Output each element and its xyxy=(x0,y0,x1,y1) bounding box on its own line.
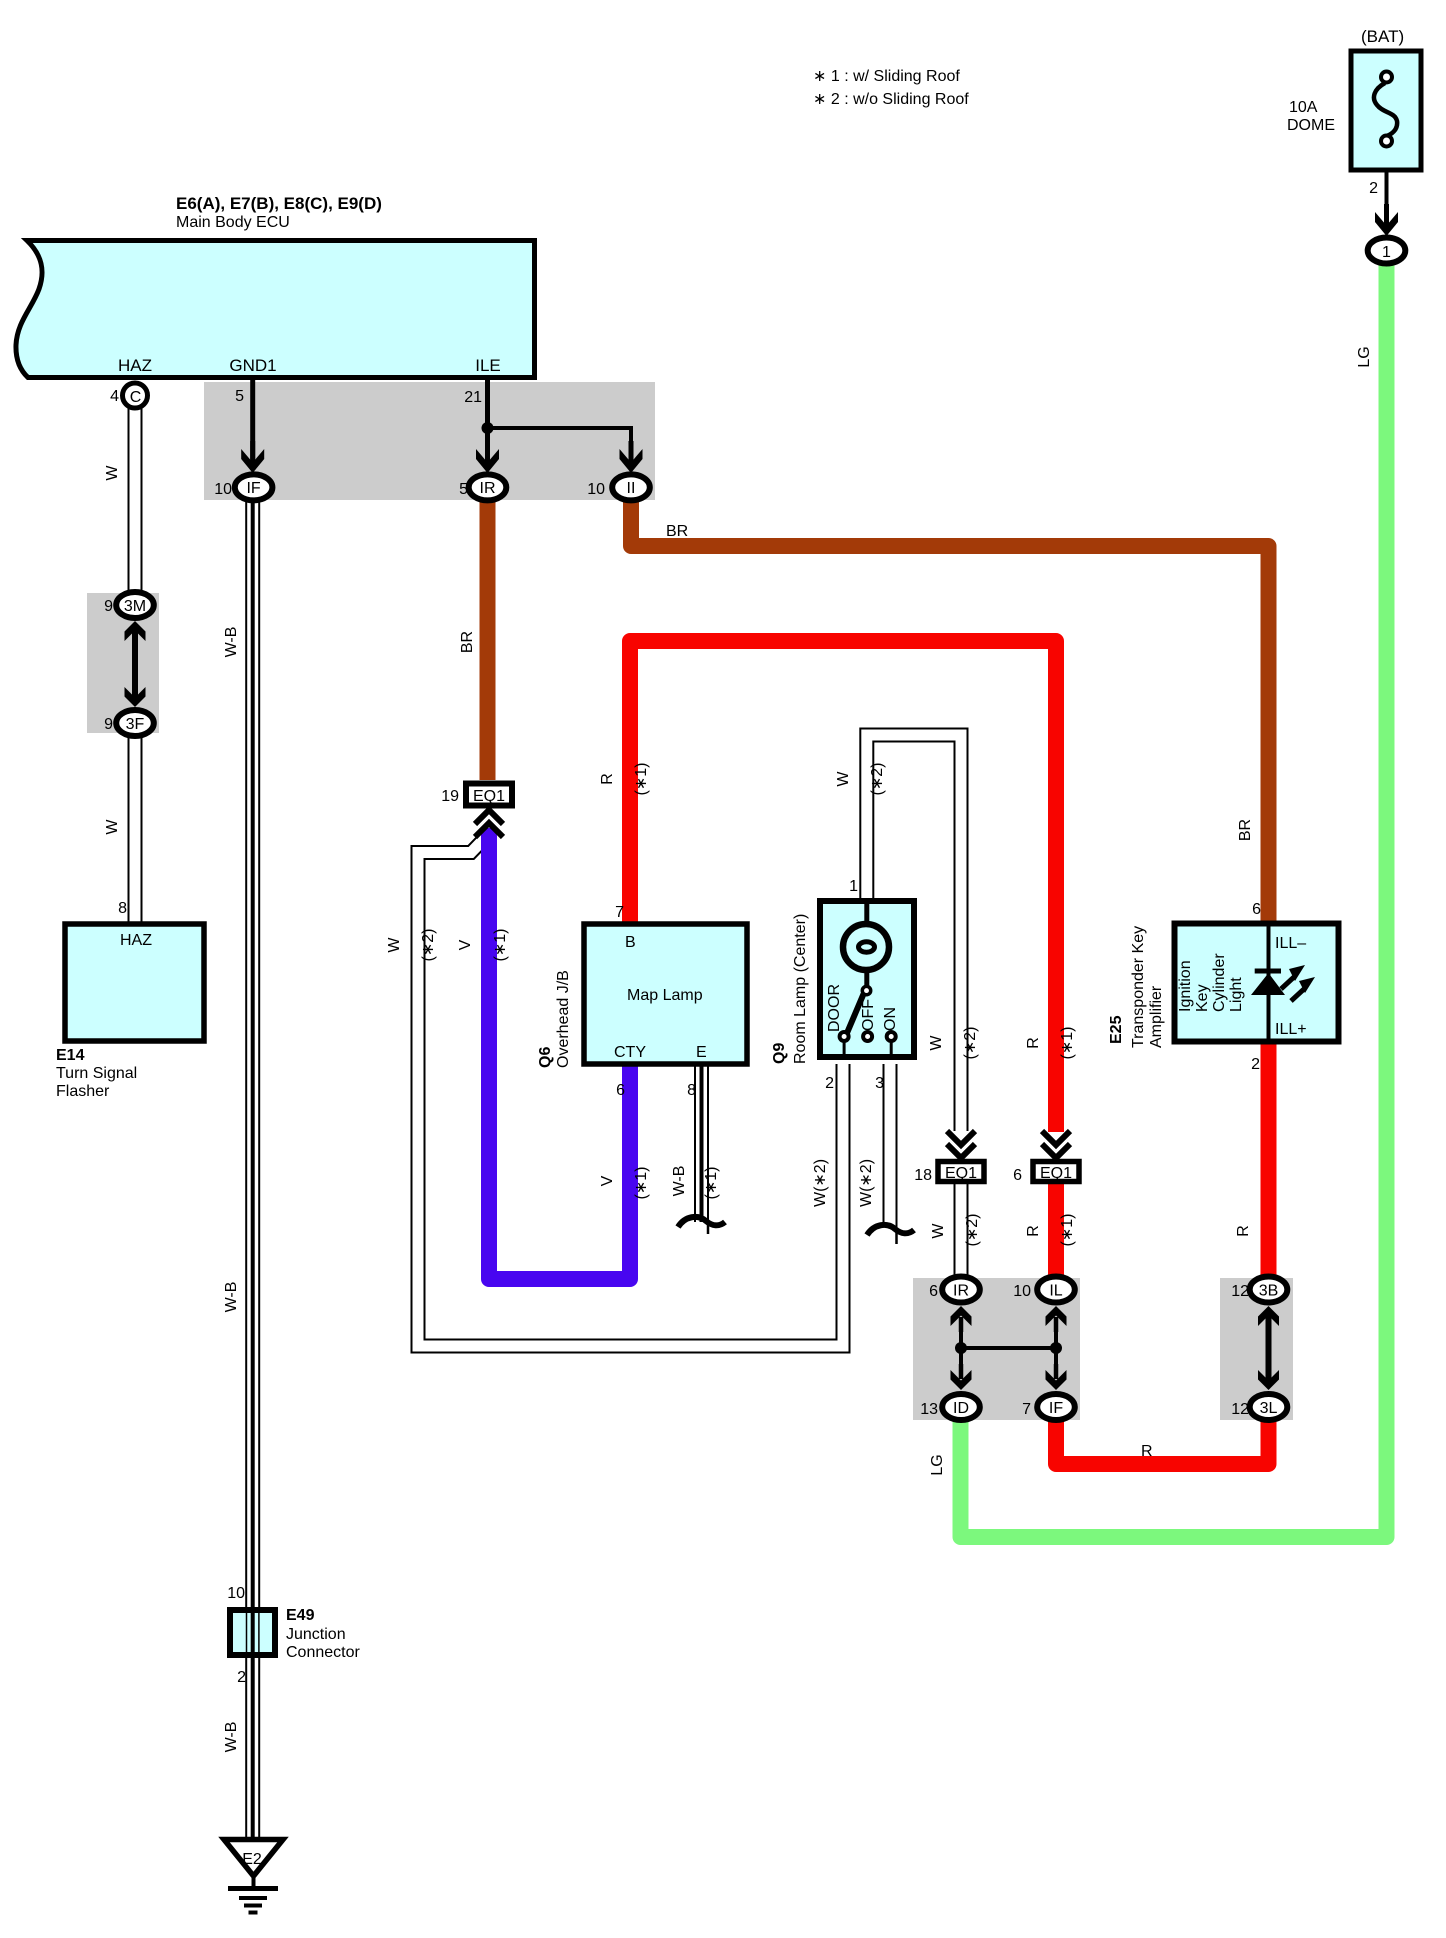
svg-text:19: 19 xyxy=(441,788,459,805)
WIRES-LAYER xyxy=(87,146,1387,1839)
svg-text:EQ1: EQ1 xyxy=(1040,1165,1072,1182)
svg-text:(∗2): (∗2) xyxy=(869,763,886,796)
connector oval 3B xyxy=(1250,1277,1288,1303)
svg-text:21: 21 xyxy=(464,389,482,406)
svg-text:Key: Key xyxy=(1194,984,1211,1012)
EQ1-18 box xyxy=(938,1162,984,1182)
svg-text:1: 1 xyxy=(849,878,858,895)
svg-text:(∗1): (∗1) xyxy=(1059,1214,1076,1247)
connector oval II xyxy=(612,474,650,500)
svg-text:CTY: CTY xyxy=(614,1044,646,1061)
svg-text:6: 6 xyxy=(1252,901,1261,918)
svg-text:W: W xyxy=(835,771,852,787)
svg-text:Overhead J/B: Overhead J/B xyxy=(555,970,572,1068)
wire W(*2) loop from EQ1-19 to Room Lamp pin 2 (white) xyxy=(418,838,843,1346)
junction bus between IR/IL and ID/IF xyxy=(951,1306,1067,1390)
wire W from 3F to E14 pin 8 (white) xyxy=(128,735,143,923)
svg-text:E49: E49 xyxy=(286,1607,315,1624)
wire W-B from IF to E49 (white w/ black stripe) xyxy=(245,499,260,1609)
svg-text:IL: IL xyxy=(1049,1283,1062,1300)
pin circle C (HAZ pin 4) xyxy=(123,383,148,408)
svg-text:IR: IR xyxy=(480,480,496,497)
svg-text:E25: E25 xyxy=(1108,1015,1125,1044)
double chevron up under EQ1-19 xyxy=(475,810,503,837)
gray connector band IF/IR/II xyxy=(204,382,655,500)
svg-text:Map Lamp: Map Lamp xyxy=(627,987,703,1004)
svg-text:IR: IR xyxy=(953,1283,969,1300)
svg-text:9: 9 xyxy=(104,598,113,615)
wire break squiggle under pin 3 xyxy=(867,1225,914,1235)
branch wire to II xyxy=(488,428,632,470)
svg-text:2: 2 xyxy=(237,1669,246,1686)
wire W(*2) stub from Room Lamp pin 3 (white, open end) xyxy=(884,1064,897,1244)
svg-text:6: 6 xyxy=(1013,1167,1022,1184)
wire W(*2) from Room Lamp pin 1 to EQ1-18 chevron (white) xyxy=(867,735,961,1131)
svg-text:C: C xyxy=(130,389,142,406)
LED vertical line through E25 xyxy=(1267,926,1271,1039)
svg-text:E14: E14 xyxy=(56,1047,85,1064)
junction node at ILE branch xyxy=(482,422,494,434)
svg-text:DOME: DOME xyxy=(1287,117,1335,134)
wire W(*2) from EQ1-18 to IR (white) xyxy=(954,1184,969,1277)
svg-text:2: 2 xyxy=(1251,1056,1260,1073)
EQ1-19 box xyxy=(466,784,512,806)
connector oval 3L xyxy=(1250,1394,1288,1420)
Map Lamp box Q6 Overhead J/B xyxy=(584,924,747,1064)
connector oval IR (bottom block) xyxy=(942,1277,980,1303)
pin line from fuse to oval 1 xyxy=(1385,146,1389,233)
svg-text:IF: IF xyxy=(246,480,260,497)
E2 ground symbol xyxy=(224,1840,283,1913)
svg-text:W: W xyxy=(930,1223,947,1239)
svg-text:W: W xyxy=(928,1035,945,1051)
svg-text:R: R xyxy=(599,773,616,785)
wire W from pin C to 3M (white) xyxy=(128,406,143,593)
contact pin lines to box bottom xyxy=(843,1041,846,1057)
svg-text:E2: E2 xyxy=(242,1851,262,1868)
svg-text:(∗1): (∗1) xyxy=(492,929,509,962)
switch contact OFF xyxy=(863,1032,872,1041)
room lamp switch lever xyxy=(847,986,871,1033)
svg-text:B: B xyxy=(625,934,636,951)
svg-text:9: 9 xyxy=(104,716,113,733)
svg-text:Turn Signal: Turn Signal xyxy=(56,1065,137,1082)
svg-text:∗ 1 : w/ Sliding Roof: ∗ 1 : w/ Sliding Roof xyxy=(813,68,960,85)
svg-text:W: W xyxy=(104,465,121,481)
svg-text:ID: ID xyxy=(953,1400,969,1417)
svg-text:∗ 2 : w/o Sliding Roof: ∗ 2 : w/o Sliding Roof xyxy=(813,91,969,108)
svg-text:Cylinder: Cylinder xyxy=(1211,953,1228,1012)
svg-text:HAZ: HAZ xyxy=(118,356,152,375)
Main Body ECU box E6/E7/E8/E9 xyxy=(16,241,535,378)
svg-text:BR: BR xyxy=(666,523,688,540)
double chevron down above EQ1-18 xyxy=(947,1131,975,1158)
svg-text:Connector: Connector xyxy=(286,1644,360,1661)
svg-text:Light: Light xyxy=(1228,977,1245,1012)
svg-text:(∗1): (∗1) xyxy=(633,1167,650,1200)
svg-text:8: 8 xyxy=(118,900,127,917)
svg-text:10: 10 xyxy=(1013,1283,1031,1300)
svg-text:E6(A), E7(B), E8(C), E9(D): E6(A), E7(B), E8(C), E9(D) xyxy=(176,194,382,213)
svg-text:8: 8 xyxy=(687,1082,696,1099)
svg-text:18: 18 xyxy=(914,1167,932,1184)
svg-text:W-B: W-B xyxy=(223,1722,240,1753)
fuse element symbol xyxy=(1374,72,1397,147)
svg-text:(∗2): (∗2) xyxy=(964,1214,981,1247)
wire R from EQ1-6 to IL (red) xyxy=(1048,1184,1064,1277)
gray band 3B/3L xyxy=(1220,1278,1293,1420)
svg-text:10: 10 xyxy=(587,481,605,498)
svg-text:(BAT): (BAT) xyxy=(1361,27,1404,46)
svg-text:(∗1): (∗1) xyxy=(703,1167,720,1200)
svg-text:GND1: GND1 xyxy=(229,356,276,375)
pin line GND1 5 xyxy=(250,380,255,470)
svg-text:(∗2): (∗2) xyxy=(420,929,437,962)
svg-text:7: 7 xyxy=(1022,1401,1031,1418)
svg-text:13: 13 xyxy=(920,1401,938,1418)
svg-text:3: 3 xyxy=(875,1075,884,1092)
svg-text:V: V xyxy=(599,1175,616,1186)
svg-text:LG: LG xyxy=(1356,346,1373,367)
arrow into IR xyxy=(476,441,499,473)
svg-text:BR: BR xyxy=(459,631,476,653)
svg-text:Ignition: Ignition xyxy=(1177,960,1194,1012)
svg-text:3L: 3L xyxy=(1260,1400,1278,1417)
svg-text:BR: BR xyxy=(1237,819,1254,841)
svg-text:IF: IF xyxy=(1049,1400,1063,1417)
wire LG from battery oval 1 to ID (light green) xyxy=(961,262,1387,1537)
connector oval 3F xyxy=(116,710,154,736)
connector oval ID xyxy=(942,1394,980,1420)
svg-text:7: 7 xyxy=(615,904,624,921)
svg-text:(∗2): (∗2) xyxy=(962,1027,979,1060)
switch contact DOOR xyxy=(840,1032,849,1041)
svg-text:2: 2 xyxy=(825,1075,834,1092)
connector oval IR xyxy=(469,474,507,500)
wire R from E25 pin 2 to 3B (red) xyxy=(1261,1040,1277,1277)
wire W-B from E49 to E2 ground (white w/ black stripe) xyxy=(245,1656,260,1839)
svg-text:Amplifier: Amplifier xyxy=(1148,985,1165,1048)
svg-text:W-B: W-B xyxy=(223,627,240,658)
svg-text:R: R xyxy=(1235,1225,1252,1237)
svg-text:Main Body ECU: Main Body ECU xyxy=(176,214,290,231)
wire BR from II to E25 pin 6 (brown) xyxy=(631,499,1269,924)
svg-text:DOOR: DOOR xyxy=(826,984,843,1032)
svg-text:ILE: ILE xyxy=(475,356,501,375)
double chevron down above EQ1-6 xyxy=(1042,1131,1070,1158)
svg-text:(∗1): (∗1) xyxy=(1059,1027,1076,1060)
LED diode symbol xyxy=(1251,971,1285,995)
svg-text:W(∗2): W(∗2) xyxy=(858,1159,875,1207)
wire W-B(*1) stub from Map Lamp pin E (white w/ black stripe, open end) xyxy=(702,1065,709,1234)
svg-text:Transponder Key: Transponder Key xyxy=(1130,926,1147,1048)
wire BR from IR to EQ1-19 (brown) xyxy=(480,499,496,780)
svg-text:5: 5 xyxy=(459,481,468,498)
svg-text:2: 2 xyxy=(1369,180,1378,197)
svg-text:W-B: W-B xyxy=(671,1166,688,1197)
svg-text:Flasher: Flasher xyxy=(56,1083,110,1100)
svg-text:3F: 3F xyxy=(126,716,145,733)
svg-text:3M: 3M xyxy=(124,598,146,615)
connector oval IF xyxy=(235,474,273,500)
svg-text:EQ1: EQ1 xyxy=(945,1165,977,1182)
LED light arrows xyxy=(1281,965,1315,1001)
svg-text:R: R xyxy=(1141,1443,1153,1460)
DOME fuse box xyxy=(1351,51,1421,170)
wire break squiggle under pin E xyxy=(678,1217,725,1227)
connector oval 3M xyxy=(116,592,154,618)
svg-text:4: 4 xyxy=(110,388,119,405)
svg-text:W: W xyxy=(386,937,403,953)
svg-text:HAZ: HAZ xyxy=(120,932,152,949)
svg-text:10A: 10A xyxy=(1289,99,1318,116)
gray band IR/IL/ID/IF xyxy=(913,1278,1080,1420)
EQ1-6 box xyxy=(1033,1162,1079,1182)
wire V from EQ1-19 to Map Lamp CTY (violet) xyxy=(489,828,630,1279)
svg-text:E: E xyxy=(696,1044,707,1061)
svg-text:Q6: Q6 xyxy=(537,1047,554,1068)
pin line ILE 21 with branch xyxy=(485,380,490,470)
wire R from Map Lamp B to EQ1-6 chevron (red) xyxy=(630,641,1056,1132)
switch contact ON xyxy=(887,1032,896,1041)
svg-text:EQ1: EQ1 xyxy=(473,788,505,805)
svg-text:ON: ON xyxy=(882,1007,899,1031)
wire R from IF to 3L (red) xyxy=(1056,1419,1269,1464)
svg-text:W-B: W-B xyxy=(223,1282,240,1313)
connector oval IL xyxy=(1037,1277,1075,1303)
svg-text:V: V xyxy=(457,939,474,950)
svg-text:Q9: Q9 xyxy=(771,1043,788,1064)
E25 Transponder Key Amplifier box xyxy=(1175,924,1339,1042)
svg-text:Junction: Junction xyxy=(286,1626,346,1643)
svg-text:OFF: OFF xyxy=(860,999,877,1031)
E14 Turn Signal Flasher box xyxy=(65,924,204,1041)
arrow into IF xyxy=(241,441,264,473)
svg-text:10: 10 xyxy=(214,481,232,498)
svg-text:6: 6 xyxy=(929,1283,938,1300)
svg-text:5: 5 xyxy=(235,388,244,405)
room lamp bulb symbol xyxy=(843,901,889,988)
svg-text:12: 12 xyxy=(1231,1401,1249,1418)
arrow into oval 1 xyxy=(1375,204,1398,236)
connector oval 1 xyxy=(1368,238,1406,264)
svg-text:6: 6 xyxy=(616,1082,625,1099)
svg-text:3B: 3B xyxy=(1259,1283,1279,1300)
connector oval IF (bottom block) xyxy=(1037,1394,1075,1420)
double arrow between 3B and 3L xyxy=(1258,1306,1279,1390)
svg-text:R: R xyxy=(1025,1037,1042,1049)
svg-text:W(∗2): W(∗2) xyxy=(812,1159,829,1207)
svg-text:LG: LG xyxy=(929,1454,946,1475)
svg-text:(∗1): (∗1) xyxy=(633,763,650,796)
gray band 3M/3F xyxy=(87,593,159,733)
Room Lamp box Q9 xyxy=(820,901,914,1057)
svg-text:R: R xyxy=(1025,1225,1042,1237)
svg-text:II: II xyxy=(627,480,636,497)
arrow into II xyxy=(620,441,643,473)
svg-text:10: 10 xyxy=(227,1585,245,1602)
svg-text:ILL–: ILL– xyxy=(1275,935,1306,952)
svg-text:Room Lamp (Center): Room Lamp (Center) xyxy=(792,914,809,1064)
svg-text:1: 1 xyxy=(1382,244,1391,261)
E49 junction connector box xyxy=(230,1610,275,1655)
svg-text:12: 12 xyxy=(1231,1283,1249,1300)
svg-text:W: W xyxy=(104,819,121,835)
double arrow between 3M and 3F xyxy=(125,621,146,707)
svg-text:ILL+: ILL+ xyxy=(1275,1021,1307,1038)
